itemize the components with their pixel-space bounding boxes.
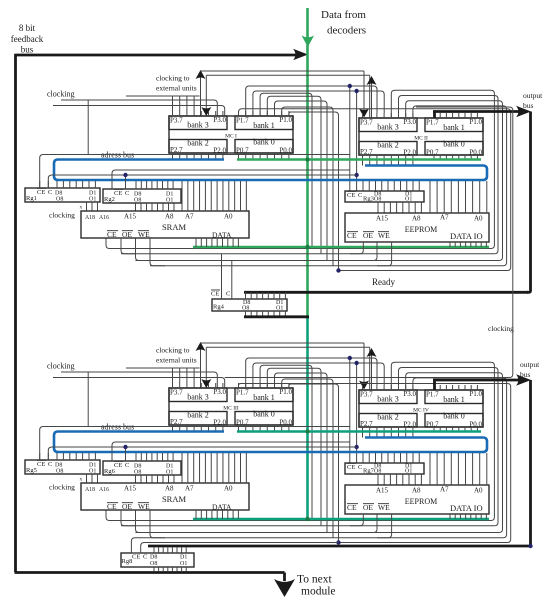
- green data line to memories: [193, 518, 489, 521]
- register Rg6: [103, 461, 181, 476]
- register Rg1: [25, 188, 100, 203]
- svg-text:Ready: Ready: [372, 277, 395, 287]
- svg-text:output: output: [520, 360, 540, 369]
- address bus (blue): [54, 160, 487, 181]
- svg-text:SRAM: SRAM: [162, 494, 187, 504]
- svg-text:P2.7: P2.7: [170, 146, 183, 154]
- svg-text:O8: O8: [242, 306, 249, 312]
- svg-text:A0: A0: [474, 215, 483, 223]
- svg-text:DATA IO: DATA IO: [450, 503, 483, 513]
- svg-text:bank 3: bank 3: [187, 121, 209, 130]
- svg-text:Rg8: Rg8: [122, 558, 133, 565]
- green data junction lower: [305, 517, 309, 521]
- output bus (module 1, thick with arrow): [433, 106, 531, 293]
- svg-text:P3.7: P3.7: [170, 117, 183, 125]
- Rg8 output pins to next module line: [154, 567, 186, 572]
- clocking to external units label: [156, 346, 197, 365]
- svg-text:Data from: Data from: [321, 9, 366, 21]
- svg-text:A8: A8: [412, 487, 421, 495]
- svg-text:clocking to: clocking to: [156, 74, 190, 83]
- svg-text:bank 1: bank 1: [443, 123, 465, 132]
- register Rg-a CE distribution wire: [40, 427, 350, 461]
- svg-text:OE: OE: [122, 502, 132, 511]
- SRAM CE OE WE control wires: [121, 510, 165, 538]
- clock arrow up at right MC: [367, 348, 377, 390]
- MC IV bank1 top pins: [434, 385, 477, 390]
- microcontroller MC III: [169, 388, 293, 427]
- Rg4 CE C input wires: [222, 254, 232, 299]
- MC I bank2 bottom pins to address bus: [173, 153, 223, 160]
- svg-text:DATA: DATA: [212, 503, 232, 512]
- svg-text:P1.7: P1.7: [236, 117, 249, 125]
- MC II bank2 bottom pins to address bus: [363, 155, 413, 166]
- svg-text:O8: O8: [56, 469, 63, 475]
- Rg2 input pins from address bus: [136, 181, 173, 189]
- green data line under MCs: [237, 158, 481, 161]
- MC II bank1 top pins: [434, 113, 477, 118]
- svg-text:A0: A0: [224, 213, 233, 221]
- svg-text:WE: WE: [378, 231, 390, 240]
- Rg3 input pins from address bus: [363, 181, 419, 191]
- clocking wire 2: [53, 106, 225, 117]
- svg-text:O1: O1: [89, 197, 96, 203]
- Rg6 input pins from address bus: [136, 453, 173, 461]
- junction on control riser C: [354, 89, 358, 191]
- svg-text:D1: D1: [180, 555, 187, 561]
- microcontroller MC II: [359, 118, 483, 157]
- MC III bank0 bottom pins to data line: [239, 425, 289, 431]
- svg-text:clocking: clocking: [47, 362, 75, 371]
- svg-text:x: x: [80, 205, 83, 211]
- feedback pickup line (thick): [148, 545, 532, 548]
- MC IV bank3 top pins: [363, 385, 413, 390]
- Rg1 input pins from address bus: [57, 181, 95, 188]
- MC I bank3 top pins: [173, 96, 223, 116]
- svg-text:bank 1: bank 1: [253, 121, 275, 130]
- svg-text:MC I: MC I: [225, 134, 237, 140]
- Rg7 output pins to EEPROM: [378, 474, 421, 485]
- 8 bit feedback bus (thick frame: top edge with right arrow, left edge, bottom to-next edge): [15, 49, 309, 573]
- junction on control riser CE: [348, 356, 352, 463]
- Rg6 C input wire: [123, 445, 127, 461]
- clock arrow up at right MC: [367, 76, 377, 118]
- svg-text:clocking: clocking: [49, 211, 75, 220]
- svg-text:Rg3: Rg3: [363, 196, 374, 203]
- EEPROM block: [345, 213, 489, 242]
- svg-text:clocking: clocking: [47, 90, 75, 99]
- svg-text:A0: A0: [474, 487, 483, 495]
- svg-text:MC IV: MC IV: [413, 408, 429, 414]
- svg-text:O8: O8: [56, 197, 63, 203]
- MC III bank2 bottom pins to address bus: [173, 425, 223, 432]
- svg-text:P3.7: P3.7: [170, 389, 183, 397]
- svg-text:O8: O8: [374, 196, 381, 202]
- register Rg-b CE distribution wire: [112, 442, 350, 461]
- svg-text:O1: O1: [180, 561, 187, 567]
- svg-text:C: C: [125, 190, 129, 197]
- svg-text:WE: WE: [138, 502, 150, 511]
- Rg2 C input wire: [123, 173, 127, 189]
- svg-text:Rg4: Rg4: [213, 304, 225, 311]
- MC III bank3 top pins: [173, 368, 223, 388]
- svg-text:A16: A16: [99, 487, 109, 493]
- svg-text:bank 0: bank 0: [443, 412, 465, 421]
- svg-text:Rg6: Rg6: [104, 468, 116, 475]
- svg-text:bank 3: bank 3: [377, 123, 399, 132]
- svg-text:A16: A16: [99, 215, 109, 221]
- svg-text:D8: D8: [150, 555, 157, 561]
- svg-text:bank 0: bank 0: [253, 138, 275, 147]
- svg-text:external units: external units: [156, 84, 197, 93]
- register C distribution wire: [48, 175, 356, 188]
- svg-text:A0: A0: [224, 485, 233, 493]
- microcontroller MC IV: [359, 390, 483, 429]
- clocking wire 2: [53, 378, 225, 389]
- svg-text:CE: CE: [114, 190, 122, 197]
- svg-text:P0.7: P0.7: [236, 419, 249, 427]
- svg-text:OE: OE: [363, 231, 373, 240]
- svg-text:C: C: [226, 291, 230, 298]
- svg-text:Rg2: Rg2: [104, 196, 115, 203]
- svg-text:A7: A7: [185, 485, 194, 493]
- svg-text:O1: O1: [276, 306, 283, 312]
- svg-text:A18: A18: [85, 215, 95, 221]
- control line junction: [336, 268, 340, 272]
- svg-text:A15: A15: [124, 485, 137, 493]
- Rg1 CE C input stubs: [40, 181, 49, 188]
- EEPROM CE OE WE control wires: [350, 242, 392, 266]
- MC II bank3 top pins: [363, 113, 413, 118]
- Rg7 input pins from address bus: [363, 453, 419, 463]
- svg-text:Rg5: Rg5: [26, 467, 37, 474]
- clock stub line over left MC: [126, 367, 200, 369]
- svg-text:MC III: MC III: [223, 406, 239, 412]
- green data line from decoders (vertical): [306, 8, 309, 319]
- clocking wire 1: [61, 100, 217, 155]
- svg-text:bank 2: bank 2: [187, 139, 209, 148]
- clocking wire 1: [61, 372, 217, 427]
- svg-text:CE: CE: [37, 189, 45, 196]
- register Rg8: [121, 553, 194, 567]
- svg-text:A8: A8: [412, 215, 421, 223]
- svg-text:bank 2: bank 2: [377, 141, 399, 150]
- svg-text:P0.7: P0.7: [426, 149, 439, 157]
- svg-text:CE: CE: [107, 230, 117, 239]
- svg-text:A15: A15: [376, 215, 389, 223]
- svg-text:CE: CE: [114, 462, 122, 469]
- svg-text:EEPROM: EEPROM: [405, 497, 437, 506]
- Rg1 output pins to SRAM: [87, 202, 98, 211]
- SRAM block (module 2): [81, 483, 249, 512]
- green data junction: [305, 157, 309, 161]
- register Rg2: [103, 189, 181, 204]
- svg-text:P3.0: P3.0: [403, 118, 416, 126]
- svg-text:bank 1: bank 1: [443, 395, 465, 404]
- svg-text:bank 0: bank 0: [443, 140, 465, 149]
- clock wire to external units: [201, 342, 365, 344]
- output bus label (module 1): [523, 91, 543, 110]
- svg-text:output: output: [523, 91, 543, 100]
- SRAM low address pins from address bus: [182, 453, 246, 483]
- output bus (module 2, thick with arrow): [433, 374, 531, 546]
- svg-text:O1: O1: [405, 196, 412, 202]
- svg-text:P1.7: P1.7: [426, 119, 439, 127]
- svg-text:WE: WE: [378, 503, 390, 512]
- svg-text:P0.7: P0.7: [236, 147, 249, 155]
- clock wire to external units: [201, 70, 365, 72]
- clock arrow down into right MC: [359, 71, 369, 118]
- svg-text:A8: A8: [165, 485, 174, 493]
- green data junction: [305, 429, 309, 433]
- MC I bank0 bottom pins to data line: [239, 153, 289, 159]
- svg-text:O1: O1: [405, 468, 412, 474]
- Rg5 output pins to SRAM: [87, 474, 98, 483]
- svg-text:P1.0: P1.0: [469, 390, 482, 398]
- wire MC III bank1 pin0 wrap: [239, 384, 511, 543]
- svg-text:CE: CE: [347, 464, 355, 471]
- EEPROM CE OE WE control wires: [350, 514, 392, 538]
- svg-text:feedback: feedback: [11, 34, 44, 44]
- register Rg7: [345, 463, 424, 475]
- svg-text:CE: CE: [107, 502, 117, 511]
- Rg4 output pins: [246, 311, 286, 317]
- svg-text:bus: bus: [523, 101, 534, 110]
- EEPROM low address pins from address bus: [430, 181, 487, 213]
- svg-text:CE: CE: [37, 461, 45, 468]
- svg-text:O8: O8: [150, 561, 157, 567]
- wire MC III bank1 pin2 to MC IV bank3 pin3: [253, 363, 384, 388]
- svg-text:OE: OE: [122, 230, 132, 239]
- svg-text:DATA IO: DATA IO: [450, 231, 483, 241]
- EEPROM data io pins to green data line: [450, 514, 486, 519]
- svg-text:A7: A7: [440, 486, 449, 494]
- svg-text:bank 3: bank 3: [187, 393, 209, 402]
- svg-text:DATA: DATA: [212, 231, 232, 240]
- svg-text:O8: O8: [134, 198, 141, 204]
- svg-text:P3.0: P3.0: [213, 116, 226, 124]
- Rg3 output pins to EEPROM: [378, 202, 421, 213]
- svg-text:WE: WE: [138, 230, 150, 239]
- svg-text:bank 0: bank 0: [253, 410, 275, 419]
- output to feedback junction: [528, 544, 532, 548]
- clock arrow up at MC left: [196, 70, 206, 116]
- clock arrow down into left MC: [201, 75, 369, 116]
- junction on control riser CE: [348, 84, 352, 191]
- SRAM block: [81, 211, 249, 240]
- Rg6 output pins to SRAM: [136, 475, 175, 483]
- SRAM data pins to green data line: [196, 238, 238, 247]
- wire MC I bank1 pin2 to MC II bank3 pin3: [253, 91, 384, 116]
- svg-text:bank 2: bank 2: [187, 411, 209, 420]
- svg-text:bank 3: bank 3: [377, 395, 399, 404]
- svg-text:A15: A15: [376, 487, 389, 495]
- svg-text:bus: bus: [21, 45, 34, 55]
- wire bundle MC IV bank3 wrap to control lines: [106, 362, 507, 538]
- register Rg3: [345, 191, 424, 203]
- svg-text:A18: A18: [85, 487, 95, 493]
- output bus label (module 2): [520, 360, 540, 379]
- wire bundle MC I bank1 to control lines: [260, 93, 338, 270]
- svg-text:A8: A8: [165, 213, 174, 221]
- Rg8 CE C input wires: [131, 538, 338, 553]
- svg-text:clocking: clocking: [488, 324, 514, 333]
- feedback bus label: [11, 23, 44, 55]
- svg-text:Rg1: Rg1: [26, 195, 37, 202]
- junction on control riser C: [354, 361, 358, 463]
- MC I bank1 top pins: [239, 111, 289, 116]
- svg-text:P0.7: P0.7: [426, 421, 439, 429]
- register Rg4: [211, 290, 287, 312]
- svg-text:EEPROM: EEPROM: [405, 225, 437, 234]
- svg-text:module: module: [301, 586, 336, 598]
- clock arrow down into right MC: [359, 343, 369, 390]
- svg-text:P1.7: P1.7: [236, 389, 249, 397]
- green data junction lower: [305, 245, 309, 249]
- svg-text:decoders: decoders: [327, 25, 366, 37]
- wire bundle MC II bank3 wrap to control lines: [106, 90, 507, 265]
- wire bundle MC III bank1 to control lines: [260, 365, 338, 542]
- address bus (blue): [54, 432, 487, 453]
- svg-text:C: C: [48, 461, 52, 468]
- Rg8 input pins from feedback bus: [154, 548, 186, 554]
- svg-text:P3.7: P3.7: [360, 119, 373, 127]
- clock arrow down into left MC: [201, 347, 369, 388]
- register C distribution wire: [48, 447, 356, 460]
- MC II bank0 bottom pins to data line: [434, 155, 477, 159]
- svg-text:O8: O8: [134, 470, 141, 476]
- SRAM CE OE WE control wires: [121, 238, 165, 266]
- svg-text:CE: CE: [132, 554, 140, 561]
- svg-text:C: C: [125, 462, 129, 469]
- svg-text:P1.0: P1.0: [279, 116, 292, 124]
- To next module arrow: [274, 573, 336, 598]
- svg-text:P3.7: P3.7: [360, 391, 373, 399]
- svg-text:Rg7: Rg7: [363, 468, 375, 475]
- svg-text:A15: A15: [124, 213, 137, 221]
- svg-text:P1.0: P1.0: [469, 118, 482, 126]
- svg-text:C: C: [48, 189, 52, 196]
- clock stub line over left MC: [126, 95, 200, 97]
- green data line continuation to module 2 (vertical): [306, 318, 309, 518]
- svg-text:C: C: [358, 464, 362, 471]
- Rg5 CE C input stubs: [40, 453, 49, 460]
- EEPROM block (module 2): [345, 485, 489, 514]
- svg-text:clocking: clocking: [49, 483, 75, 492]
- Rg4 input pins from Ready line: [246, 292, 286, 299]
- svg-text:8 bit: 8 bit: [19, 23, 36, 33]
- wire MC I bank1 pin1 to MC II bank3 pin2: [246, 86, 377, 116]
- svg-text:O1: O1: [166, 470, 173, 476]
- svg-text:CE: CE: [347, 192, 355, 199]
- svg-text:P2.7: P2.7: [360, 420, 373, 428]
- wire MC I bank1 pin0 wrap: [239, 109, 511, 271]
- SRAM low address pins from address bus: [182, 181, 246, 211]
- svg-text:external units: external units: [156, 356, 197, 365]
- svg-text:CE: CE: [347, 231, 357, 240]
- clocking line down right side to module 2: [225, 107, 513, 378]
- svg-text:P2.7: P2.7: [360, 148, 373, 156]
- svg-text:P2.7: P2.7: [170, 418, 183, 426]
- svg-text:P1.0: P1.0: [279, 388, 292, 396]
- SRAM data pins to green data line: [196, 510, 238, 519]
- Rg5 input pins from address bus: [57, 453, 95, 460]
- MC III bank1 top pins: [239, 383, 289, 388]
- green data arrow: [302, 36, 315, 48]
- Ready line (thick): [244, 291, 528, 294]
- svg-text:CE: CE: [211, 291, 219, 298]
- clocking to external units label: [156, 74, 197, 93]
- svg-text:O1: O1: [89, 469, 96, 475]
- svg-text:O1: O1: [166, 198, 173, 204]
- microcontroller MC I: [169, 116, 293, 155]
- svg-text:C: C: [143, 554, 147, 561]
- svg-text:SRAM: SRAM: [162, 222, 187, 232]
- svg-text:To next: To next: [297, 574, 332, 586]
- clock arrow up at MC left: [196, 342, 206, 388]
- svg-text:P3.0: P3.0: [403, 390, 416, 398]
- MC IV bank0 bottom pins to data line: [434, 427, 477, 431]
- svg-text:O8: O8: [374, 468, 381, 474]
- register Rg-a CE distribution wire: [40, 155, 350, 189]
- svg-text:A7: A7: [440, 214, 449, 222]
- svg-text:bank 1: bank 1: [253, 393, 275, 402]
- svg-text:P1.7: P1.7: [426, 391, 439, 399]
- svg-text:OE: OE: [363, 503, 373, 512]
- MC IV bank2 bottom pins to address bus: [363, 427, 413, 438]
- svg-text:clocking to: clocking to: [156, 346, 190, 355]
- svg-text:C: C: [358, 192, 362, 199]
- Data from decoders label: [321, 9, 366, 37]
- svg-text:MC II: MC II: [414, 136, 428, 142]
- register Rg5: [25, 460, 100, 475]
- Rg2 output pins to SRAM: [136, 203, 175, 211]
- green data line under MCs: [237, 430, 481, 433]
- EEPROM data io pins to green data line: [450, 242, 486, 247]
- wire MC III bank1 pin1 to MC IV bank3 pin2: [246, 358, 377, 388]
- Rg4 output bus to data line (thick): [244, 315, 309, 318]
- svg-text:A7: A7: [185, 213, 194, 221]
- svg-text:P3.0: P3.0: [213, 388, 226, 396]
- green data line to memories: [193, 246, 489, 249]
- EEPROM low address pins from address bus: [430, 453, 487, 485]
- control line junction: [336, 540, 340, 544]
- svg-text:x: x: [80, 477, 83, 483]
- register Rg-b CE distribution wire: [112, 170, 350, 189]
- svg-text:CE: CE: [347, 503, 357, 512]
- svg-text:bank 2: bank 2: [377, 413, 399, 422]
